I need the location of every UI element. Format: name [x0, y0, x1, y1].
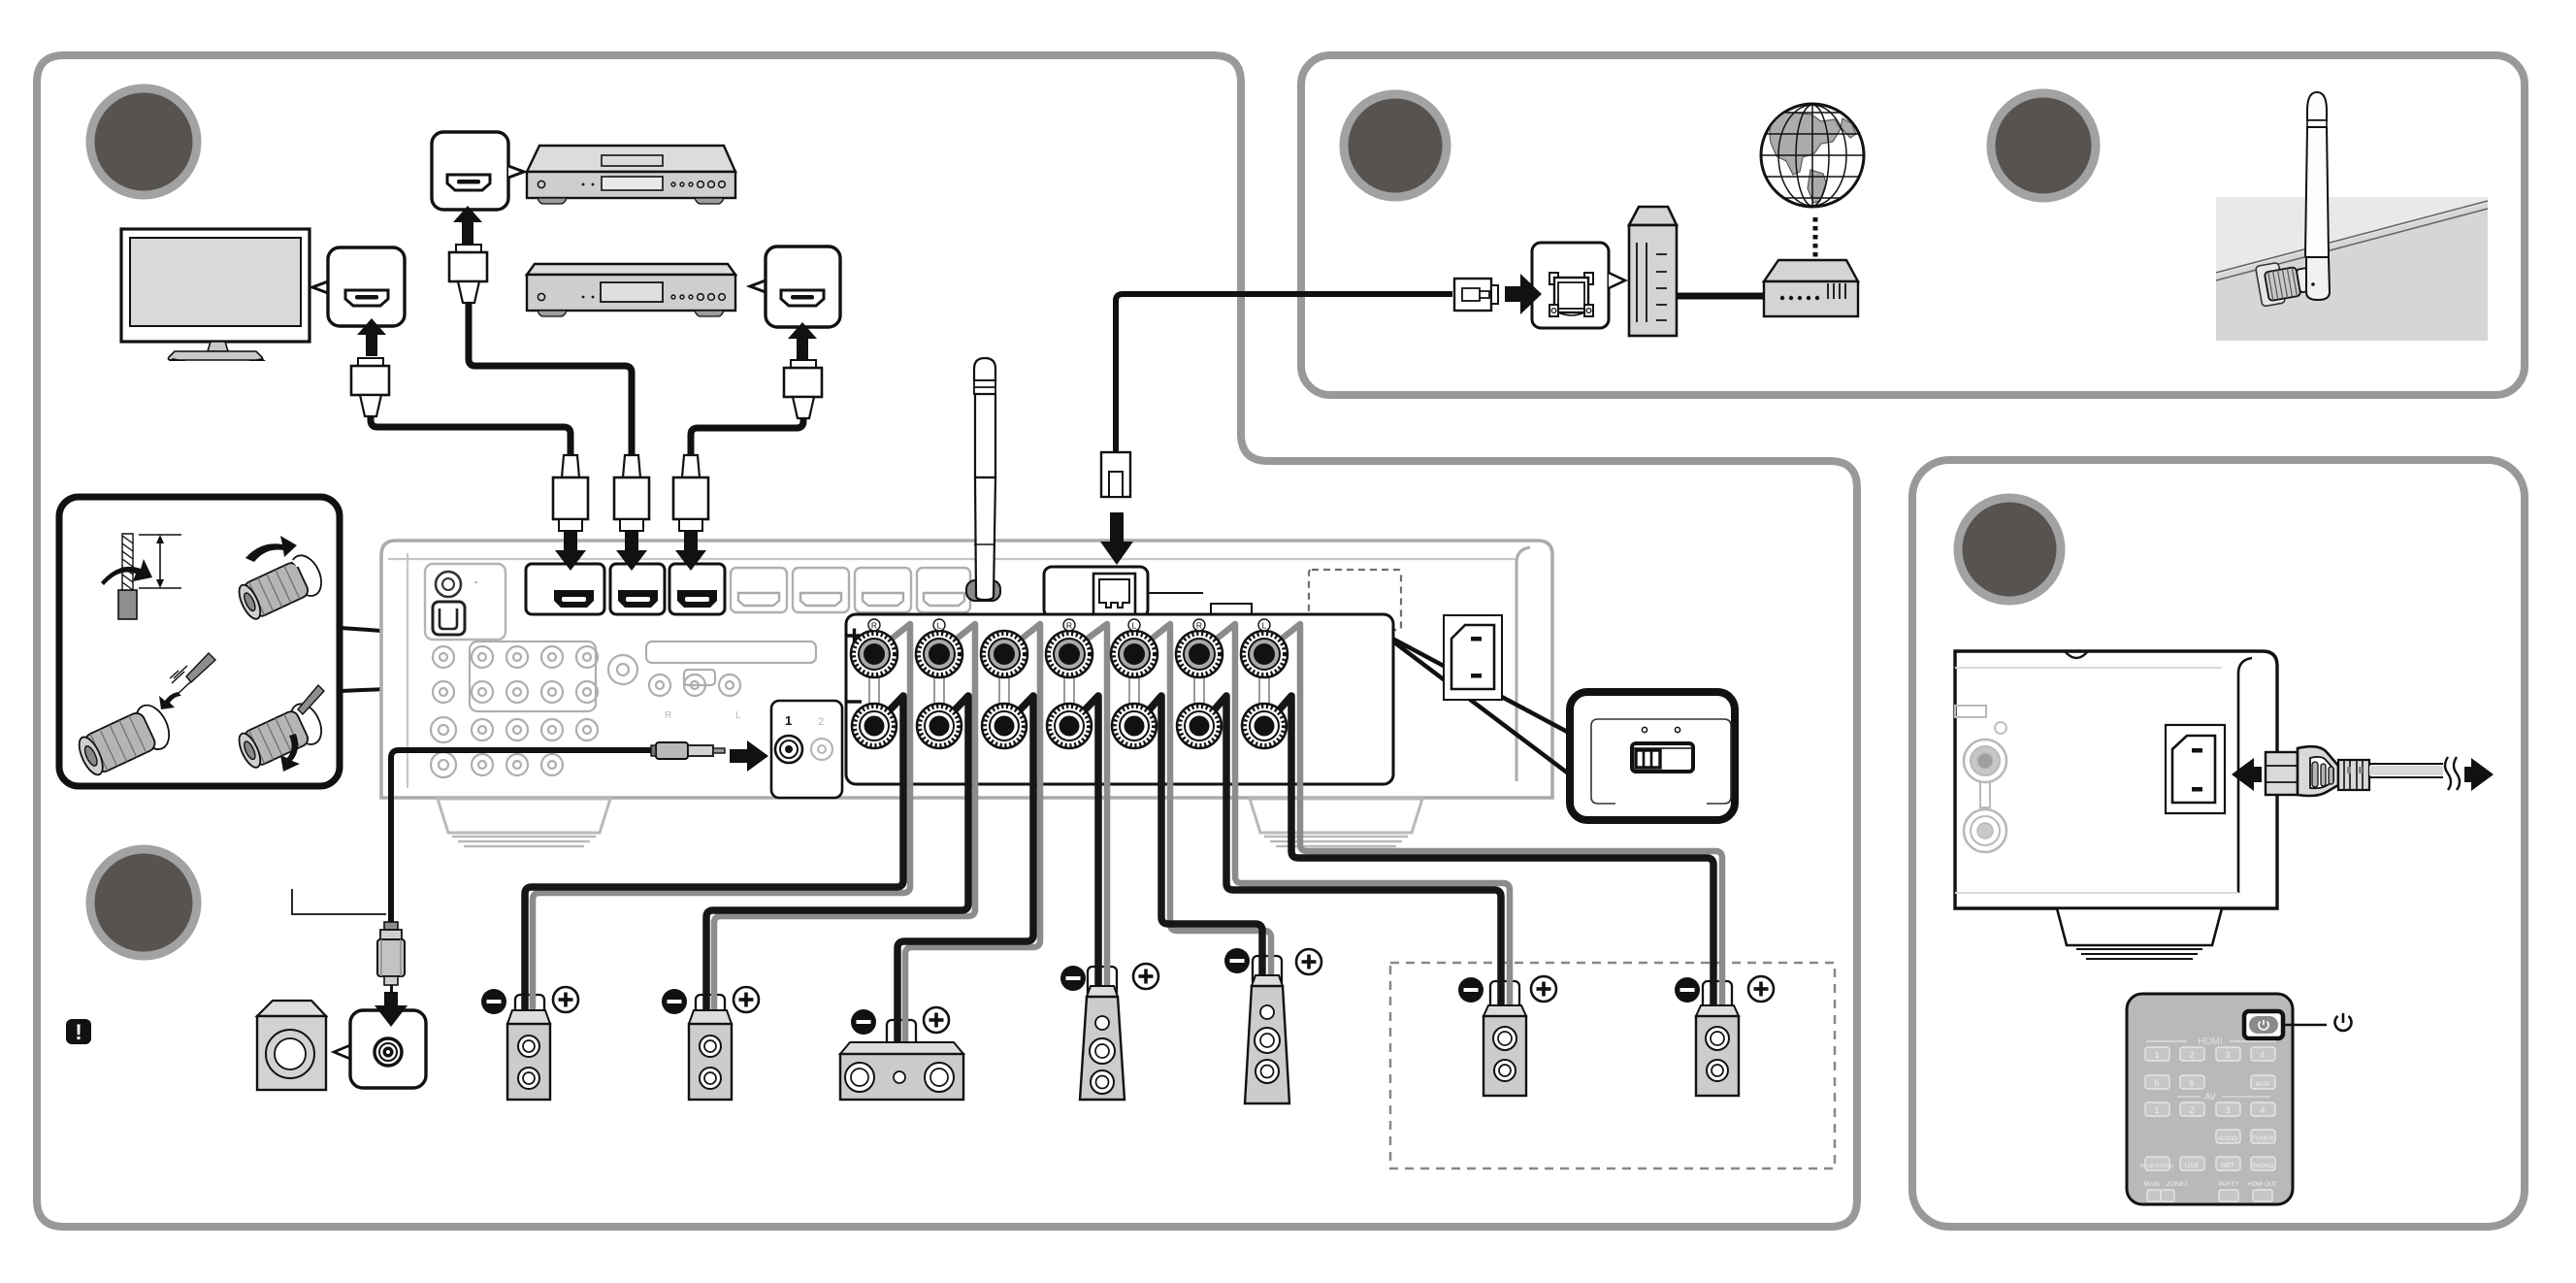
- svg-text:1: 1: [2154, 1050, 2159, 1060]
- RCA pin plug on subwoofer cable: [377, 922, 405, 996]
- leader line from power button: [2283, 1024, 2327, 1026]
- svg-text:USB: USB: [2185, 1163, 2200, 1169]
- speaker wire front right (+) gray: [533, 624, 910, 1025]
- HDMI cable BD to receiver: [469, 302, 632, 455]
- wire sheath at center speaker: [887, 1020, 916, 1055]
- modem: [1764, 260, 1858, 316]
- network label leader line: [1148, 592, 1203, 594]
- plus polarity at surround back left: [1748, 976, 1774, 1002]
- arrow left into AC inlet: [2232, 758, 2262, 791]
- arrow down into HDMI 2: [616, 531, 647, 571]
- curved arrow (loosen): [245, 536, 297, 562]
- svg-text:R: R: [871, 621, 877, 631]
- svg-text:L: L: [735, 710, 741, 721]
- HDMI cable CD to receiver: [691, 417, 803, 455]
- arrow down into subwoofer jack: [375, 992, 408, 1027]
- NETWORK port box: [1044, 567, 1148, 617]
- speaker wire front left (-) black: [706, 696, 968, 1025]
- svg-text:PHONO: PHONO: [2252, 1164, 2273, 1169]
- HDMI input 7 (gray): [917, 568, 970, 612]
- plus polarity at front right: [553, 987, 578, 1012]
- BD player: [527, 146, 735, 204]
- svg-text:5: 5: [2154, 1078, 2159, 1088]
- big left panel (steps 1-2 connection area): [37, 55, 1857, 1227]
- speaker wire surround back left (+) gray: [1272, 624, 1722, 1017]
- plus sign label: [847, 629, 862, 643]
- callout lines from inset to speaker terminals: [341, 628, 843, 691]
- step circle 4: [1991, 93, 2096, 198]
- speaker wire surround back right (+) gray: [1207, 624, 1510, 1017]
- wire sheath at front left speaker: [696, 995, 725, 1026]
- wire sheath at front right speaker: [515, 995, 544, 1026]
- plus polarity at surround back right: [1531, 976, 1556, 1002]
- cable router to modem: [1677, 293, 1764, 300]
- speaker surround back right: [1484, 1005, 1526, 1096]
- terminal strip col 6: [1194, 675, 1204, 705]
- svg-text:R: R: [1066, 621, 1072, 631]
- channel letter L col 7: [1258, 619, 1270, 631]
- binding post + front left: [916, 631, 962, 677]
- minus polarity at center: [851, 1009, 876, 1035]
- svg-text:1: 1: [785, 713, 792, 728]
- antenna install photo background: [2216, 197, 2488, 341]
- svg-text:AV: AV: [2204, 1092, 2215, 1102]
- terminal strip col 2: [934, 675, 944, 705]
- voltage selector inset box: [1570, 692, 1735, 820]
- binding post turn (top right): [232, 547, 327, 625]
- receiver left foot: [438, 799, 610, 833]
- antenna rod (photo): [2305, 92, 2330, 300]
- speaker surround right: [1080, 986, 1125, 1100]
- svg-text:AUDIO: AUDIO: [2218, 1135, 2238, 1142]
- terminal strip col 3: [999, 675, 1009, 705]
- remote control: [2127, 994, 2293, 1204]
- speaker wire inserted into post: [159, 653, 215, 709]
- receiver right foot: [1250, 799, 1422, 833]
- HDMI callout bubble at CD player: [750, 247, 840, 327]
- minus polarity at front right: [481, 989, 506, 1014]
- HDMI input 5 (gray): [793, 568, 849, 612]
- svg-text:NET: NET: [2221, 1163, 2235, 1169]
- binding post + center: [981, 631, 1027, 677]
- svg-text:HDMI OUT: HDMI OUT: [2248, 1182, 2277, 1188]
- top-right network/antenna panel: [1301, 55, 2525, 395]
- step circle 5: [1958, 498, 2061, 601]
- speaker wire surround left (+) gray: [1142, 624, 1271, 987]
- svg-text:L: L: [1132, 621, 1137, 631]
- HDMI plug (BD cable): [449, 245, 487, 303]
- receiver foot (power panel): [2057, 908, 2222, 959]
- svg-text:!: !: [75, 1020, 82, 1044]
- svg-text:R: R: [1196, 621, 1202, 631]
- svg-text:4: 4: [2260, 1105, 2265, 1115]
- speaker wire surround back right (-) black: [1207, 696, 1501, 1017]
- bottom-right power panel: [1912, 460, 2525, 1227]
- minus polarity at surround right: [1060, 966, 1086, 991]
- speaker surround left: [1245, 975, 1289, 1103]
- minus polarity at surround back left: [1675, 977, 1700, 1003]
- curved arrow (tighten): [280, 734, 300, 772]
- wire sheath at surround back left speaker: [1703, 981, 1732, 1017]
- HDMI plug (TV cable): [351, 358, 389, 416]
- wall LAN jack callout bubble: [1532, 243, 1625, 328]
- binding post - front right: [852, 704, 897, 748]
- HDMI plug into receiver input 2: [614, 455, 649, 531]
- AC inlet on receiver: [1444, 615, 1502, 700]
- voltage selector dashed rect: [1309, 570, 1401, 630]
- speaker front right: [507, 1010, 550, 1100]
- CD player: [527, 264, 735, 316]
- HDMI input box 2 (black): [610, 564, 665, 614]
- arrow up into BD bubble: [453, 206, 482, 244]
- svg-text:6: 6: [2189, 1078, 2194, 1088]
- arrow up into CD bubble: [788, 322, 817, 360]
- ghost RCA jack field: [431, 641, 816, 777]
- wire sheath at surround left speaker: [1253, 956, 1282, 987]
- power cord plug: [2266, 746, 2369, 796]
- arrow down into HDMI 1: [555, 531, 586, 571]
- ghost connector block top-left (coax + optical): [425, 564, 505, 640]
- svg-text:TUNER: TUNER: [2252, 1135, 2274, 1142]
- subwoofer box: [257, 1001, 326, 1090]
- power symbol: [2334, 1013, 2351, 1031]
- speaker front left: [689, 1010, 732, 1100]
- svg-text:2: 2: [2189, 1105, 2194, 1115]
- svg-text:AUX: AUX: [2256, 1081, 2270, 1088]
- arrow up into TV bubble: [357, 318, 386, 356]
- speaker wire surround left (-) black: [1142, 696, 1262, 987]
- speaker wire front right (-) black: [525, 696, 903, 1025]
- plus polarity at surround right: [1133, 964, 1158, 989]
- binding post + surround back right: [1176, 631, 1223, 677]
- wire tightened in post: [234, 699, 328, 773]
- speaker wire surround right (-) black: [1077, 696, 1098, 998]
- binding post - surround back left: [1242, 704, 1287, 748]
- svg-text:R: R: [665, 710, 671, 721]
- binding post - front left: [917, 704, 962, 748]
- minus polarity at front left: [662, 989, 687, 1014]
- subwoofer cable along receiver: [391, 750, 651, 924]
- plus polarity at center: [924, 1007, 949, 1033]
- speaker wire surround back left (-) black: [1272, 696, 1713, 1017]
- speaker wire held in post: [298, 685, 324, 714]
- router: [1629, 207, 1677, 336]
- LAN cable from receiver: [1116, 294, 1452, 452]
- step circle 2: [90, 849, 197, 956]
- ghost connectors (power panel): [1955, 706, 2006, 852]
- channel letter L col 5: [1128, 619, 1140, 631]
- dotted link modem to internet: [1813, 217, 1818, 258]
- terminal strip col 7: [1259, 675, 1269, 705]
- minus polarity at surround left: [1224, 948, 1250, 973]
- speaker wire center (+) gray: [905, 624, 1040, 1055]
- arrow down into NETWORK: [1100, 512, 1133, 565]
- channel letter R col 1: [868, 619, 880, 631]
- wire sheath at surround right speaker: [1088, 967, 1117, 998]
- svg-text:-: -: [474, 576, 478, 588]
- minus sign label: [847, 700, 862, 703]
- svg-text:2: 2: [2189, 1050, 2194, 1060]
- AC inlet (power panel): [2166, 725, 2225, 813]
- terminal strip col 1: [869, 675, 879, 705]
- receiver rear (power panel): [1955, 651, 2277, 908]
- minus polarity at surround back right: [1458, 977, 1484, 1003]
- speaker wire surround right (+) gray: [1077, 624, 1107, 998]
- HDMI callout bubble at BD player: [432, 132, 524, 210]
- internet globe: [1756, 103, 1869, 208]
- HDMI plug into receiver input 3: [673, 455, 708, 531]
- antenna mount plate: [2256, 262, 2286, 307]
- voltage selector callout lines: [1382, 633, 1571, 775]
- subwoofer input callout bubble: [334, 1010, 426, 1088]
- LAN plug at receiver: [1101, 452, 1130, 497]
- LAN cable plug (to wall): [1454, 279, 1498, 311]
- blank label box: [1211, 604, 1252, 614]
- step circle 1: [90, 88, 197, 195]
- HDMI input box 3 (black): [669, 564, 725, 614]
- wire into binding post hole: [73, 700, 175, 780]
- speaker cable prep inset box: [59, 497, 340, 786]
- svg-text:3: 3: [2225, 1050, 2230, 1060]
- TV: [121, 229, 310, 361]
- note exclamation icon: [66, 1019, 91, 1044]
- binding post + surround left: [1111, 631, 1158, 677]
- HDMI plug (CD cable): [784, 360, 822, 418]
- plus polarity at front left: [734, 987, 759, 1012]
- arrow right (to outlet): [2464, 758, 2494, 791]
- receiver right foot pads: [1264, 837, 1408, 846]
- speaker wire front left (+) gray: [714, 624, 975, 1025]
- svg-text:2: 2: [818, 716, 824, 728]
- channel letter R col 4: [1063, 619, 1075, 631]
- binding post - center: [982, 704, 1027, 748]
- HDMI plug into receiver input 1: [553, 455, 588, 531]
- HDMI input 6 (gray): [855, 568, 911, 612]
- binding post - surround right: [1047, 704, 1092, 748]
- HDMI callout bubble at TV: [312, 247, 405, 326]
- svg-text:MAIN . .ZONE2: MAIN . .ZONE2: [2143, 1181, 2188, 1188]
- AV receiver rear panel body: [381, 541, 1552, 798]
- svg-text:L: L: [1262, 621, 1267, 631]
- plus polarity at surround left: [1296, 949, 1321, 974]
- svg-text:BLUETOOTH: BLUETOOTH: [2140, 1164, 2173, 1169]
- cable label leader bracket: [292, 889, 386, 914]
- svg-text:PARTY: PARTY: [2218, 1181, 2239, 1188]
- surround back speakers dashed option box: [1390, 963, 1835, 1168]
- terminal strip col 4: [1064, 675, 1074, 705]
- speaker wire center (-) black: [897, 696, 1033, 1055]
- arrow down into HDMI 3: [675, 531, 706, 571]
- step circle 3: [1344, 94, 1447, 197]
- wire sheath at surround back right speaker: [1490, 981, 1519, 1017]
- svg-text:3: 3: [2225, 1105, 2230, 1115]
- stripped speaker wire: [101, 534, 181, 619]
- power cable with break: [2369, 757, 2460, 790]
- svg-text:L: L: [937, 621, 942, 631]
- binding post + surround back left: [1241, 631, 1288, 677]
- arrow right into wall jack: [1505, 274, 1542, 314]
- terminal strip col 5: [1129, 675, 1139, 705]
- binding post - surround back right: [1177, 704, 1222, 748]
- receiver left foot pads: [452, 837, 596, 846]
- speaker surround back left: [1696, 1005, 1739, 1096]
- binding post - surround left: [1112, 704, 1157, 748]
- speaker terminal block: [846, 614, 1393, 784]
- antenna screw connector: [2265, 265, 2314, 302]
- subwoofer pin cable plug: [651, 742, 725, 759]
- speaker center: [840, 1042, 963, 1100]
- wireless antenna on receiver: [966, 358, 1000, 601]
- binding post + front right: [851, 631, 897, 677]
- HDMI cable TV to receiver: [371, 415, 571, 455]
- svg-text:HDMI: HDMI: [2198, 1036, 2223, 1047]
- HDMI input 4 (gray): [731, 568, 787, 612]
- binding post + surround right: [1046, 631, 1092, 677]
- svg-text:1: 1: [2154, 1105, 2159, 1115]
- channel letter L col 2: [933, 619, 945, 631]
- channel letter R col 6: [1193, 619, 1205, 631]
- HDMI input box 1 (black): [526, 564, 604, 614]
- arrow right into SUB OUT 1: [730, 740, 768, 772]
- svg-text:4: 4: [2260, 1050, 2265, 1060]
- SUBWOOFER PRE OUT box: [771, 701, 842, 798]
